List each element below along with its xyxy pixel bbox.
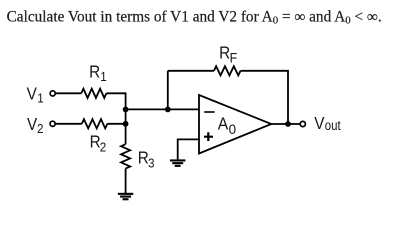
wire R3 to ground — [125, 169, 127, 194]
svg-text:F: F — [230, 50, 238, 66]
wire V1 to R1 — [56, 92, 82, 94]
svg-text:V: V — [27, 83, 38, 103]
svg-text:1: 1 — [37, 91, 44, 106]
wire R1 to node A — [106, 93, 125, 109]
svg-text:A: A — [218, 114, 229, 134]
wire node B to R3 — [125, 124, 127, 144]
svg-text:0: 0 — [229, 121, 237, 137]
svg-text:3: 3 — [148, 156, 155, 171]
resistor RF — [214, 66, 241, 75]
wire R2 to node B — [107, 123, 125, 125]
wire op-amp output — [271, 123, 300, 125]
svg-text:R: R — [89, 61, 100, 81]
resistor R3 — [121, 144, 130, 168]
wire node A to node B — [125, 109, 127, 123]
svg-text:2: 2 — [100, 140, 107, 155]
wire node A up to RF — [167, 71, 169, 110]
op-amp plus sign — [204, 132, 213, 141]
wire V2 to R2 — [56, 123, 82, 125]
wire op-amp plus input to ground — [178, 139, 199, 160]
wire RF right to output node — [241, 71, 289, 124]
ground at op-amp plus input — [170, 159, 185, 167]
junction output dot — [285, 121, 291, 127]
resistor R2 — [82, 119, 108, 128]
ground below R3 — [118, 193, 133, 201]
terminal V2 circle — [50, 121, 55, 126]
junction node B dot — [123, 121, 129, 127]
terminal V1 circle — [50, 91, 55, 96]
svg-text:V: V — [314, 113, 325, 133]
svg-text:R: R — [138, 147, 149, 167]
op-amp U1 triangle — [199, 95, 271, 154]
svg-text:2: 2 — [37, 121, 44, 136]
svg-text:Calculate Vout in terms of V1: Calculate Vout in terms of V1 and V2 for… — [7, 9, 382, 27]
terminal Vout circle — [300, 121, 305, 126]
svg-text:out: out — [325, 118, 341, 133]
svg-text:1: 1 — [100, 69, 107, 84]
resistor R1 — [81, 89, 106, 98]
junction feedback dot — [165, 107, 171, 113]
wire RF left — [168, 70, 214, 72]
op-amp minus sign — [204, 111, 214, 113]
svg-text:R: R — [219, 43, 230, 63]
junction node A dot — [123, 107, 129, 113]
wire node A to op-amp minus input — [126, 108, 199, 110]
